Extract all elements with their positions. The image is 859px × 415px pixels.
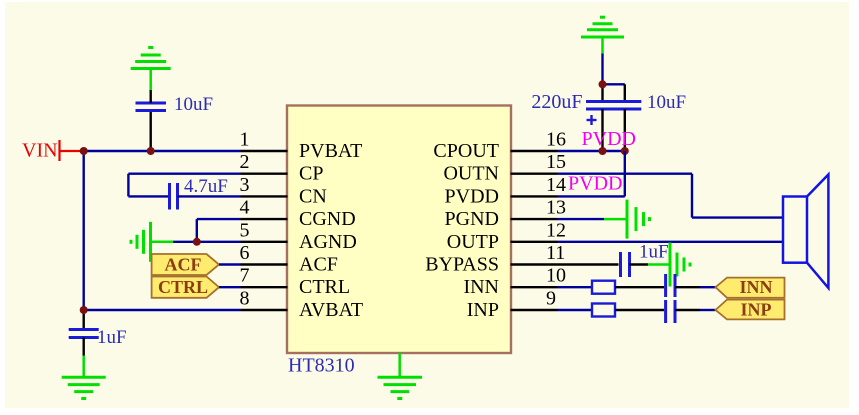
wire BYPASS pin11 (558, 263, 619, 265)
wire PVDD pin14 (558, 195, 625, 197)
pin 14 PVDD stub (511, 195, 558, 197)
pin 12 OUTP stub (511, 241, 558, 243)
svg-text:10uF: 10uF (174, 94, 213, 115)
svg-text:PVDD: PVDD (568, 173, 622, 195)
svg-text:10uF: 10uF (647, 92, 686, 113)
wire OUTN pin15 (558, 172, 693, 174)
port VIN (22, 140, 84, 162)
ground above C1 (131, 48, 171, 91)
svg-text:12: 12 (546, 219, 566, 241)
wire VIN to pin1 (84, 150, 241, 152)
pin 9 INP stub (511, 309, 558, 311)
svg-text:CP: CP (299, 163, 323, 185)
svg-text:14: 14 (546, 174, 566, 196)
svg-text:BYPASS: BYPASS (425, 254, 499, 276)
wire PVDD vertical to CPOUT (624, 151, 626, 196)
svg-text:CN: CN (299, 185, 327, 207)
ground PGND sideways right (604, 200, 650, 239)
wire OUTN vertical (691, 174, 693, 218)
capacitor C4 220uF polarized (586, 84, 619, 151)
svg-text:INP: INP (741, 300, 772, 320)
svg-text:PVDD: PVDD (445, 185, 499, 207)
wire R1 to C7 (615, 286, 664, 288)
pin 6 ACF stub (241, 263, 288, 265)
capacitor C7 INN (666, 274, 675, 297)
wire CGND down to AGND (196, 219, 198, 242)
svg-text:2: 2 (240, 151, 250, 173)
svg-text:7: 7 (240, 265, 250, 287)
capacitor C2 1uF bottom-left (69, 310, 99, 356)
pin 2 CP stub (241, 172, 288, 174)
wire C8 to INP port (675, 309, 700, 311)
pin 4 CGND stub (241, 218, 288, 220)
svg-text:1uF: 1uF (97, 327, 127, 348)
port ACF (152, 254, 219, 275)
svg-text:ACF: ACF (299, 254, 338, 276)
resistor R1 INN (592, 281, 615, 294)
svg-text:9: 9 (546, 288, 556, 310)
junction CGND-AGND (193, 238, 201, 246)
svg-text:CGND: CGND (299, 208, 356, 230)
port INP (716, 300, 785, 320)
ground under U1 (378, 353, 423, 399)
junction C4 CPOUT node (599, 147, 607, 155)
wire CP loop left vertical (127, 174, 129, 197)
svg-text:4.7uF: 4.7uF (184, 176, 228, 197)
capacitor C1 10uF top-left (136, 90, 167, 151)
svg-text:OUTN: OUTN (443, 163, 499, 185)
port INN (716, 277, 785, 298)
ground AGND sideways left (131, 222, 173, 262)
wire AGND pin5 (173, 241, 241, 243)
svg-text:8: 8 (240, 288, 250, 310)
svg-text:CTRL: CTRL (299, 276, 350, 298)
svg-text:220uF: 220uF (531, 91, 582, 113)
svg-text:PVDD: PVDD (582, 128, 636, 150)
speaker LS1 (783, 175, 828, 289)
svg-text:PGND: PGND (445, 208, 499, 230)
junction VIN node (80, 147, 88, 155)
svg-text:VIN: VIN (22, 140, 58, 162)
svg-text:3: 3 (240, 174, 250, 196)
pin 3 CN stub (241, 195, 288, 197)
pin 1 PVBAT stub (241, 150, 288, 152)
wire left vertical VIN to AVBAT (82, 151, 84, 310)
svg-text:PVBAT: PVBAT (299, 140, 362, 162)
resistor R2 INP (592, 304, 615, 317)
wire C7 to INN port (675, 286, 700, 288)
svg-text:HT8310: HT8310 (288, 355, 355, 377)
junction C5 CPOUT node (621, 147, 629, 155)
capacitor C8 INP (666, 300, 675, 323)
svg-text:CPOUT: CPOUT (433, 140, 499, 162)
svg-text:5: 5 (240, 219, 250, 241)
capacitor C3 4.7uF (170, 183, 178, 210)
op-amp U1 HT8310 body (287, 106, 511, 354)
svg-text:1uF: 1uF (639, 242, 669, 263)
wire INN pin10 left (558, 286, 593, 288)
wire CN left segment (128, 195, 169, 197)
wire OUTN to speaker (692, 216, 783, 218)
ground BYPASS sideways right (648, 243, 690, 287)
junction AVBAT node (80, 306, 88, 314)
wire C4 node to C5 (603, 83, 625, 85)
pin 11 BYPASS stub (511, 263, 558, 265)
pin 15 OUTN stub (511, 172, 558, 174)
junction C4 top node (599, 80, 607, 88)
wire CGND pin4 (197, 218, 241, 220)
svg-text:16: 16 (546, 129, 566, 151)
svg-text:11: 11 (546, 242, 565, 264)
svg-text:15: 15 (546, 151, 566, 173)
ground below C2 (62, 356, 106, 399)
wire ACF to pin6 (219, 263, 241, 265)
capacitor C6 1uF bypass (621, 252, 649, 277)
junction C1 node (147, 147, 155, 155)
wire OUTP pin12 to speaker (558, 241, 783, 243)
wire AVBAT pin8 (84, 309, 241, 311)
wire CN right segment (178, 195, 241, 197)
svg-text:ACF: ACF (165, 255, 202, 275)
wire ground to C4 node (601, 54, 603, 85)
wire CPOUT pin16 (558, 150, 625, 152)
pin 10 INN stub (511, 286, 558, 288)
wire R2 to C8 (615, 309, 664, 311)
svg-text:AGND: AGND (299, 231, 357, 253)
svg-text:INN: INN (739, 277, 772, 297)
wire INP pin9 left (558, 309, 593, 311)
pin 16 CPOUT stub (511, 150, 558, 152)
pin 7 CTRL stub (241, 286, 288, 288)
svg-text:OUTP: OUTP (447, 231, 499, 253)
wire CP loop top (128, 172, 240, 174)
svg-text:10: 10 (546, 265, 566, 287)
pin 8 AVBAT stub (241, 309, 288, 311)
svg-text:CTRL: CTRL (158, 277, 208, 297)
pin 13 PGND stub (511, 218, 558, 220)
svg-text:6: 6 (240, 242, 250, 264)
svg-text:INN: INN (463, 276, 499, 298)
ground above C4 (581, 17, 624, 53)
capacitor C5 10uF top-right (608, 84, 641, 151)
svg-text:1: 1 (240, 129, 250, 151)
svg-text:13: 13 (546, 197, 566, 219)
port CTRL (152, 277, 219, 298)
wire PGND pin13 (558, 218, 605, 220)
svg-text:INP: INP (467, 299, 499, 321)
pin 5 AGND stub (241, 241, 288, 243)
svg-text:AVBAT: AVBAT (299, 299, 363, 321)
wire CTRL to pin7 (219, 286, 241, 288)
svg-text:4: 4 (240, 197, 250, 219)
